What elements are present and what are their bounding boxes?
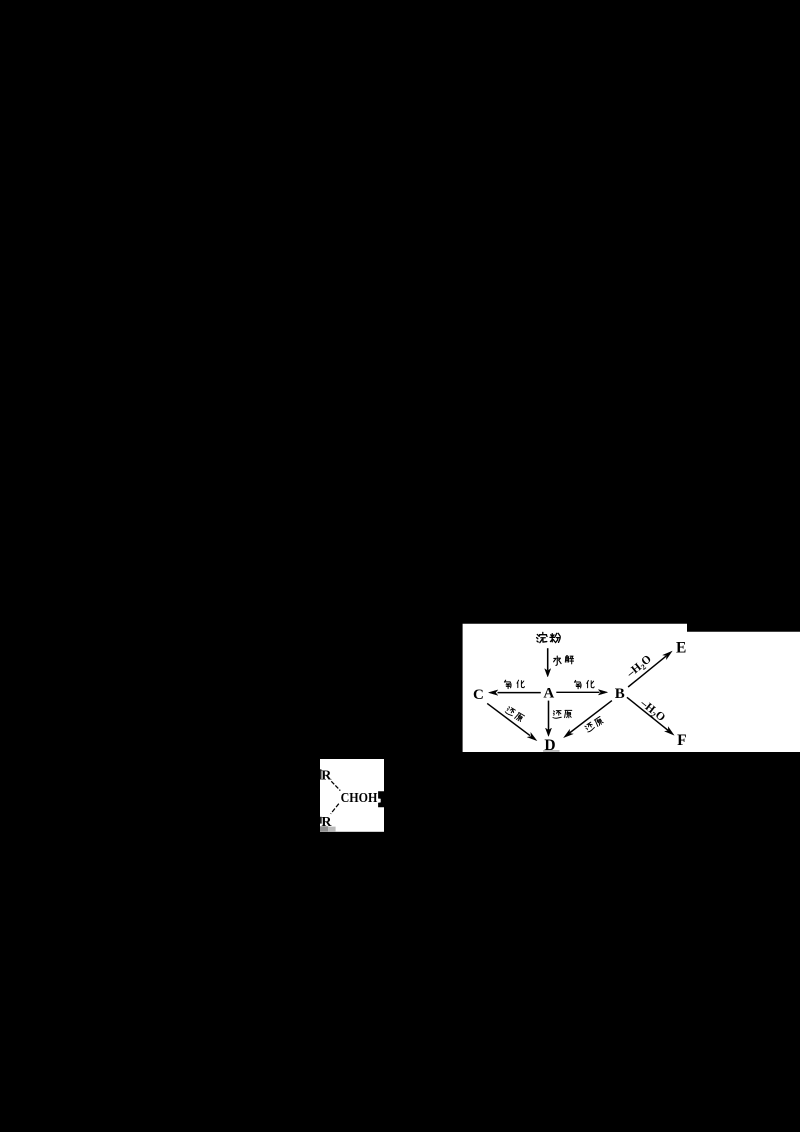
label -H2O (upper): [624, 653, 655, 682]
label oxidation (right): [574, 680, 581, 688]
arrow A to B: [556, 691, 599, 693]
gray scan artifact squares: [320, 826, 328, 831]
arrow A to D: [548, 701, 550, 730]
svg-text:C: C: [473, 687, 484, 703]
label oxidation (left): [504, 680, 511, 688]
svg-text:B: B: [615, 686, 625, 702]
arrow C to D: [487, 703, 530, 735]
white panel: CHOH formula: [320, 759, 384, 832]
svg-text:CHOH: CHOH: [341, 791, 378, 806]
arrow B to D: [570, 701, 612, 733]
label -H2O (lower): [636, 697, 667, 725]
label shuijie (hydrolysis): [554, 656, 561, 665]
arrow starch to A: [547, 648, 549, 670]
clipped glyph at left edge (top): [320, 769, 322, 779]
bond R bottom to CHOH: [331, 804, 339, 814]
svg-text:R: R: [321, 768, 332, 783]
clipped black blob at right edge: [378, 791, 384, 807]
label dianfen (starch): [537, 632, 547, 642]
svg-text:F: F: [677, 732, 686, 749]
label reduction (middle): [553, 711, 561, 719]
gray smudge under D: [543, 750, 559, 752]
arrow B to F: [627, 697, 668, 730]
arrow B to E: [628, 656, 666, 687]
bond R top to CHOH: [331, 781, 340, 790]
white panel: reaction scheme: [463, 624, 800, 752]
label reduction (C-D, rotated): [505, 706, 525, 722]
svg-text:E: E: [676, 639, 686, 656]
svg-text:A: A: [543, 685, 554, 701]
label reduction (B-D, rotated): [584, 716, 604, 733]
clipped glyph at left edge (bottom): [320, 817, 322, 824]
arrow A to C: [498, 692, 541, 694]
